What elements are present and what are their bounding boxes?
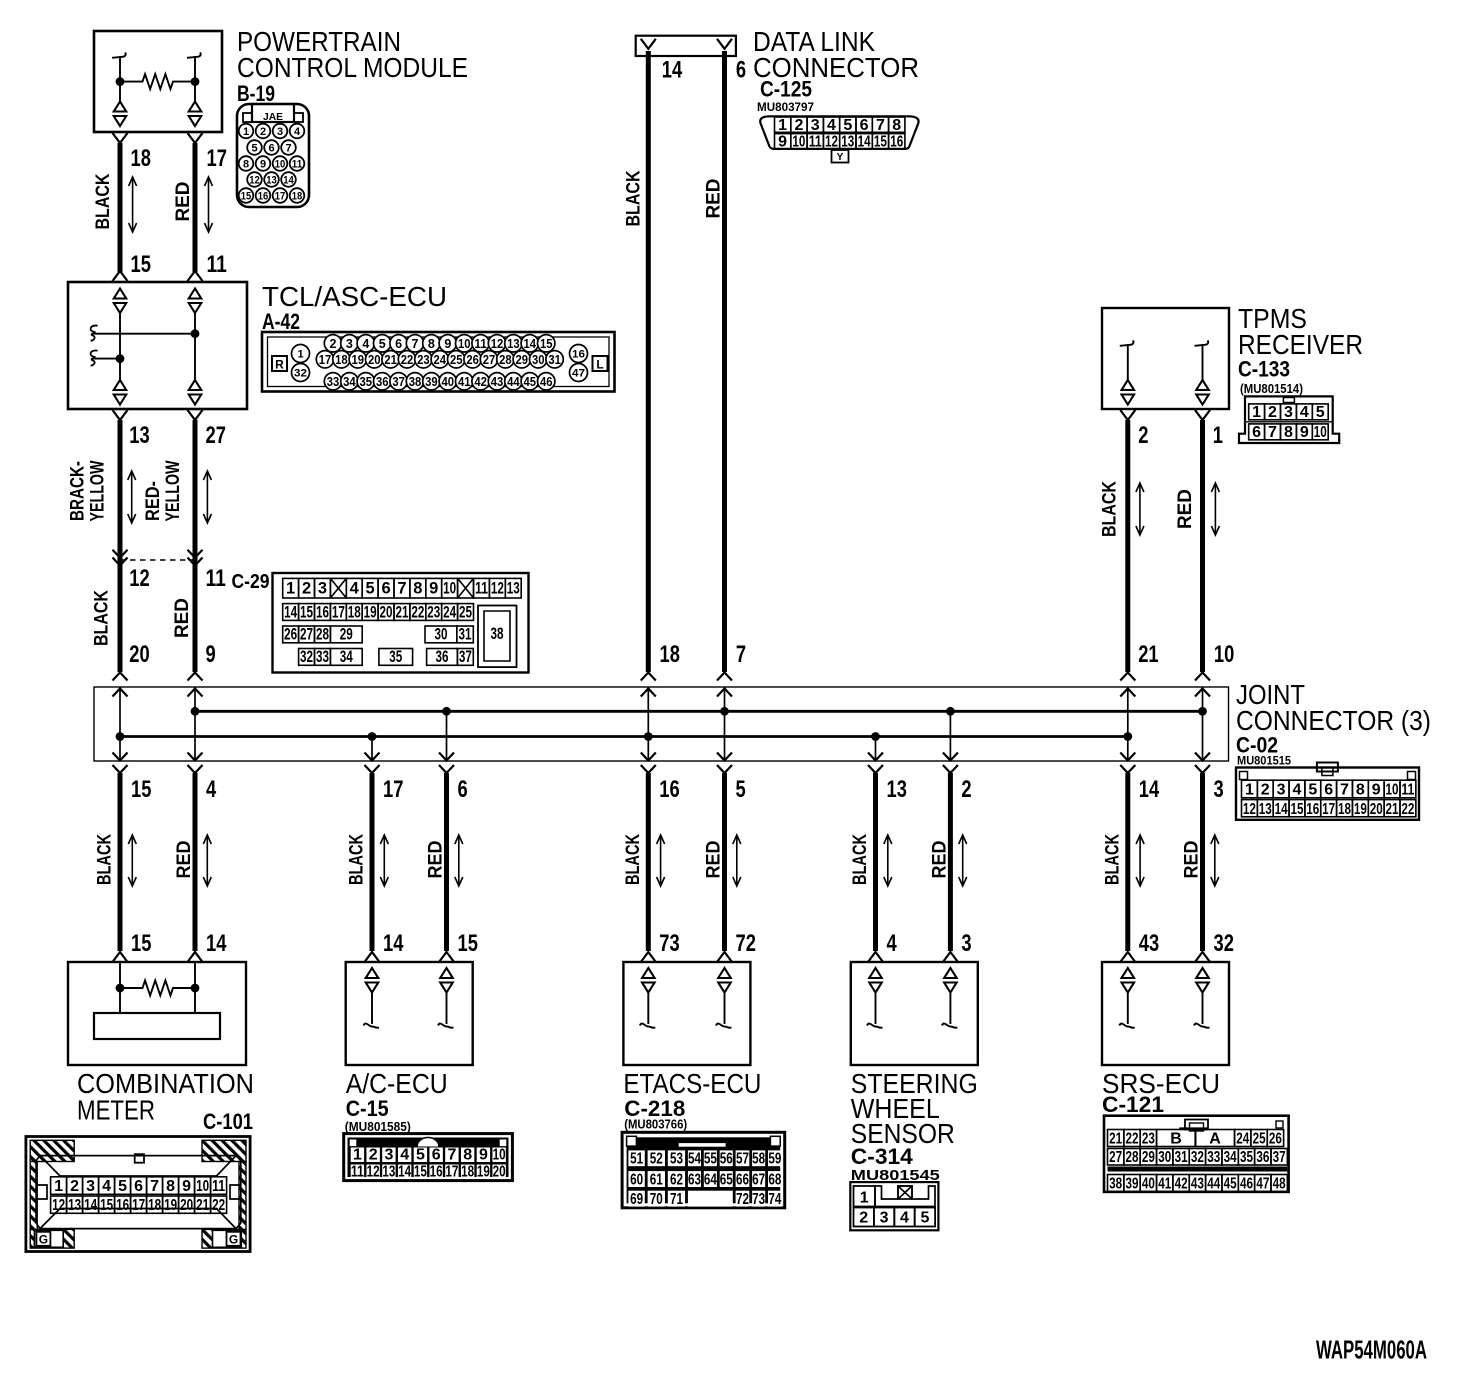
svg-text:22: 22 bbox=[401, 353, 414, 367]
svg-text:55: 55 bbox=[704, 1151, 717, 1168]
joint connector internal wire x=1202.5 bbox=[1202, 687, 1204, 761]
svg-text:R: R bbox=[275, 358, 284, 372]
wire RED joint to module pins 6->15 bbox=[444, 773, 449, 951]
svg-text:6: 6 bbox=[432, 1147, 441, 1164]
svg-text:17: 17 bbox=[132, 1197, 145, 1214]
svg-text:8: 8 bbox=[413, 580, 422, 598]
wire BLACK joint to module pins 16->73 bbox=[646, 773, 651, 951]
svg-text:58: 58 bbox=[752, 1151, 765, 1168]
svg-text:35: 35 bbox=[360, 375, 373, 389]
connector C-125 pin face (OBD trapezoid) bbox=[760, 116, 918, 163]
svg-text:8: 8 bbox=[1284, 424, 1293, 441]
svg-text:BLACK: BLACK bbox=[95, 834, 116, 885]
svg-text:15: 15 bbox=[131, 930, 151, 957]
svg-text:6: 6 bbox=[395, 337, 402, 351]
svg-text:15: 15 bbox=[414, 1164, 427, 1181]
svg-text:1: 1 bbox=[297, 349, 303, 361]
svg-text:71: 71 bbox=[670, 1191, 683, 1208]
node right bbox=[191, 984, 200, 993]
joint connector internal wire x=724.5 bbox=[724, 687, 726, 761]
svg-text:A/C-ECU: A/C-ECU bbox=[346, 1068, 448, 1099]
svg-text:5: 5 bbox=[366, 580, 375, 598]
svg-text:RED: RED bbox=[704, 841, 725, 879]
svg-text:19: 19 bbox=[477, 1164, 490, 1181]
terminal symbol TCL pin 11 bbox=[189, 289, 202, 299]
svg-text:27: 27 bbox=[1109, 1149, 1122, 1166]
twisted-pair arrow right bbox=[205, 177, 213, 232]
svg-text:1: 1 bbox=[286, 580, 295, 598]
svg-text:15: 15 bbox=[1290, 801, 1303, 818]
svg-text:4: 4 bbox=[206, 776, 217, 803]
connector C-121 pin face bbox=[1104, 1116, 1289, 1193]
terminal fork pin 14 bbox=[641, 39, 656, 49]
svg-text:23: 23 bbox=[427, 603, 440, 621]
wire BLACK TPMS 2 down bbox=[1120, 410, 1135, 420]
connector C-101 pin face bbox=[26, 1137, 250, 1252]
svg-text:24: 24 bbox=[434, 353, 447, 367]
svg-text:2: 2 bbox=[1268, 404, 1277, 421]
twisted-pair arrows bbox=[884, 835, 892, 886]
joint connector internal wire x=446.5 bbox=[446, 711, 448, 761]
module box: STEERING WHEEL SENSOR C-314 bbox=[851, 962, 978, 1065]
svg-text:45: 45 bbox=[1224, 1176, 1237, 1193]
joint connector internal wire x=120 bbox=[119, 687, 121, 761]
wire RED-YELLOW TCL 27 down bbox=[188, 410, 203, 420]
svg-text:12: 12 bbox=[1243, 801, 1256, 818]
svg-text:63: 63 bbox=[688, 1171, 701, 1188]
svg-text:5: 5 bbox=[1308, 782, 1317, 799]
svg-text:RED: RED bbox=[930, 841, 951, 879]
wire RED joint to module pins 3->32 bbox=[1200, 773, 1205, 951]
svg-text:B-19: B-19 bbox=[237, 81, 275, 106]
svg-text:8: 8 bbox=[428, 337, 435, 351]
svg-text:4: 4 bbox=[350, 580, 360, 598]
svg-text:RED: RED bbox=[426, 841, 447, 879]
svg-text:65: 65 bbox=[720, 1171, 733, 1188]
terminal fork pin 6 bbox=[717, 39, 732, 49]
svg-text:25: 25 bbox=[450, 353, 463, 367]
svg-text:9: 9 bbox=[479, 1147, 488, 1164]
svg-text:4: 4 bbox=[400, 1147, 409, 1164]
terminal symbol pin 18 bbox=[114, 102, 127, 112]
svg-text:6: 6 bbox=[458, 776, 468, 803]
svg-text:30: 30 bbox=[532, 353, 545, 367]
svg-text:2: 2 bbox=[1261, 782, 1270, 799]
internal terminal hook pin18 side bbox=[112, 53, 126, 82]
svg-text:2: 2 bbox=[1138, 422, 1148, 449]
module box: SRS-ECU C-121 bbox=[1102, 962, 1229, 1065]
svg-text:22: 22 bbox=[1401, 801, 1414, 818]
svg-text:7: 7 bbox=[1340, 782, 1349, 799]
svg-text:6: 6 bbox=[134, 1178, 143, 1195]
svg-text:BLACK: BLACK bbox=[92, 590, 113, 646]
internal bus line to node R bbox=[93, 333, 195, 335]
svg-text:36: 36 bbox=[376, 375, 389, 389]
terminal symbol pin 17 bbox=[189, 102, 202, 112]
svg-text:28: 28 bbox=[316, 626, 329, 644]
connector B-19 pin face (JAE 18-pin) bbox=[237, 104, 309, 207]
svg-text:19: 19 bbox=[164, 1197, 177, 1214]
svg-text:3: 3 bbox=[318, 580, 327, 598]
svg-text:5: 5 bbox=[920, 1210, 929, 1227]
svg-text:4: 4 bbox=[887, 930, 898, 957]
svg-text:1: 1 bbox=[860, 1190, 869, 1207]
svg-text:10: 10 bbox=[792, 133, 805, 150]
svg-text:38: 38 bbox=[491, 625, 504, 643]
joint connector internal wire x=950.4 bbox=[949, 711, 951, 761]
svg-text:13: 13 bbox=[382, 1164, 395, 1181]
svg-text:MU803797: MU803797 bbox=[757, 102, 814, 114]
svg-text:27: 27 bbox=[206, 422, 226, 449]
svg-text:BLACK: BLACK bbox=[1102, 834, 1123, 885]
svg-text:36: 36 bbox=[1256, 1149, 1269, 1166]
svg-text:4: 4 bbox=[294, 126, 301, 138]
svg-text:10: 10 bbox=[443, 580, 456, 598]
squiggle continuation left upper bbox=[91, 326, 98, 341]
svg-text:25: 25 bbox=[1253, 1131, 1266, 1148]
svg-text:20: 20 bbox=[493, 1164, 506, 1181]
svg-text:CONTROL MODULE: CONTROL MODULE bbox=[237, 52, 468, 83]
twisted-pair arrow left bbox=[1136, 483, 1144, 535]
inline connector C-29 dashed line bbox=[120, 559, 195, 561]
svg-text:24: 24 bbox=[1236, 1131, 1249, 1148]
svg-text:15: 15 bbox=[458, 930, 478, 957]
internal wires from pins bbox=[119, 962, 121, 988]
svg-text:12: 12 bbox=[825, 133, 838, 150]
svg-text:5: 5 bbox=[843, 117, 852, 134]
inline connector C-29 junction chevrons right bbox=[188, 550, 203, 558]
svg-text:44: 44 bbox=[1207, 1176, 1220, 1193]
svg-text:1: 1 bbox=[1213, 422, 1223, 449]
svg-text:YELLOW: YELLOW bbox=[163, 460, 184, 521]
svg-text:15: 15 bbox=[131, 776, 151, 803]
svg-text:WAP54M060A: WAP54M060A bbox=[1316, 1335, 1427, 1365]
svg-text:37: 37 bbox=[1273, 1149, 1286, 1166]
svg-text:RED: RED bbox=[172, 598, 193, 638]
svg-text:57: 57 bbox=[736, 1151, 749, 1168]
terminal symbol bbox=[1196, 968, 1209, 978]
svg-text:3: 3 bbox=[811, 117, 820, 134]
svg-text:73: 73 bbox=[659, 930, 679, 957]
terminal symbol TCL pin 13 bbox=[114, 380, 127, 390]
connector C-133 pin face bbox=[1239, 396, 1339, 443]
svg-text:16: 16 bbox=[1306, 801, 1319, 818]
node on right wire bbox=[191, 329, 200, 338]
connector C-218 pin face bbox=[622, 1132, 785, 1208]
node left bbox=[116, 984, 125, 993]
svg-text:11: 11 bbox=[292, 159, 303, 171]
internal wire right bbox=[194, 314, 196, 381]
terminal lead with hook bbox=[1119, 993, 1135, 1028]
terminal symbol TCL pin 15 bbox=[114, 289, 127, 299]
svg-text:3: 3 bbox=[384, 1147, 393, 1164]
svg-text:1: 1 bbox=[243, 126, 249, 138]
svg-text:42: 42 bbox=[1175, 1176, 1188, 1193]
svg-text:2: 2 bbox=[961, 776, 971, 803]
terminal symbol bbox=[366, 968, 379, 978]
svg-text:16: 16 bbox=[430, 1164, 443, 1181]
svg-text:19: 19 bbox=[1354, 801, 1367, 818]
svg-text:ETACS-ECU: ETACS-ECU bbox=[623, 1068, 761, 1099]
node junction right bbox=[191, 77, 200, 86]
svg-text:53: 53 bbox=[670, 1151, 683, 1168]
svg-text:10: 10 bbox=[275, 159, 286, 171]
svg-text:28: 28 bbox=[499, 353, 512, 367]
svg-text:4: 4 bbox=[1292, 782, 1301, 799]
svg-text:21: 21 bbox=[1109, 1131, 1122, 1148]
svg-text:1: 1 bbox=[1245, 782, 1254, 799]
svg-text:Y: Y bbox=[837, 152, 844, 163]
svg-text:17: 17 bbox=[332, 603, 345, 621]
svg-text:40: 40 bbox=[1142, 1176, 1155, 1193]
svg-text:6: 6 bbox=[1252, 424, 1261, 441]
svg-text:21: 21 bbox=[1138, 641, 1158, 668]
svg-text:2: 2 bbox=[260, 126, 266, 138]
svg-text:21: 21 bbox=[1386, 801, 1399, 818]
svg-text:11: 11 bbox=[475, 580, 488, 598]
connector C-29 pin face bbox=[273, 573, 529, 673]
wire RED joint to module pins 5->72 bbox=[722, 773, 727, 951]
terminal symbol TPMS pin 2 bbox=[1122, 380, 1135, 390]
svg-text:72: 72 bbox=[736, 1191, 749, 1208]
svg-text:42: 42 bbox=[474, 375, 487, 389]
svg-text:5: 5 bbox=[736, 776, 746, 803]
svg-text:48: 48 bbox=[1273, 1176, 1286, 1193]
svg-text:3: 3 bbox=[86, 1178, 95, 1195]
svg-text:18: 18 bbox=[335, 353, 348, 367]
svg-text:16: 16 bbox=[572, 349, 585, 361]
twisted-pair arrows bbox=[1136, 835, 1144, 886]
svg-text:12: 12 bbox=[367, 1164, 380, 1181]
svg-text:43: 43 bbox=[1139, 930, 1159, 957]
wire RED data link 6 down to joint bbox=[722, 51, 727, 672]
svg-text:15: 15 bbox=[540, 337, 553, 351]
svg-text:7: 7 bbox=[397, 580, 406, 598]
terminal lead with hook bbox=[867, 993, 883, 1028]
svg-text:CONNECTOR (3): CONNECTOR (3) bbox=[1236, 705, 1431, 736]
module box: TCL/ASC-ECU A-42 bbox=[68, 282, 247, 409]
svg-text:2: 2 bbox=[330, 337, 337, 351]
terminal symbol bbox=[1122, 968, 1135, 978]
svg-text:9: 9 bbox=[778, 133, 787, 150]
svg-text:5: 5 bbox=[251, 143, 257, 155]
squiggle continuation left lower bbox=[91, 350, 98, 365]
svg-text:35: 35 bbox=[1240, 1149, 1253, 1166]
svg-text:11: 11 bbox=[207, 251, 227, 278]
svg-text:13: 13 bbox=[507, 337, 520, 351]
bus junction dots bbox=[116, 732, 125, 741]
node junction left bbox=[116, 77, 125, 86]
svg-text:14: 14 bbox=[84, 1197, 97, 1214]
svg-text:7: 7 bbox=[285, 143, 291, 155]
terminal lead with hook bbox=[438, 993, 454, 1028]
wire BLACK-YELLOW TCL 13 down bbox=[113, 410, 128, 420]
internal branch line lower bbox=[93, 358, 120, 360]
wire RED joint to module pins 4->14 bbox=[193, 773, 198, 951]
svg-text:11: 11 bbox=[1401, 782, 1414, 799]
wire RED TPMS 1 down bbox=[1195, 410, 1210, 420]
svg-text:14: 14 bbox=[206, 930, 227, 957]
internal hook right bbox=[1195, 341, 1209, 381]
svg-text:(MU801585): (MU801585) bbox=[345, 1120, 411, 1134]
svg-text:13: 13 bbox=[887, 776, 907, 803]
svg-text:73: 73 bbox=[752, 1191, 765, 1208]
bus line lower (CAN low joint) bbox=[120, 735, 1128, 738]
joint connector internal wire x=195 bbox=[194, 687, 196, 761]
svg-text:35: 35 bbox=[389, 648, 402, 666]
terminal lead with hook bbox=[364, 993, 380, 1028]
svg-text:17: 17 bbox=[445, 1164, 458, 1181]
svg-text:47: 47 bbox=[572, 368, 585, 380]
svg-text:20: 20 bbox=[368, 353, 381, 367]
svg-text:18: 18 bbox=[660, 641, 680, 668]
module box: A/C-ECU C-15 bbox=[346, 962, 473, 1065]
svg-text:16: 16 bbox=[659, 776, 679, 803]
svg-text:11: 11 bbox=[206, 565, 226, 592]
svg-text:27: 27 bbox=[483, 353, 496, 367]
svg-text:66: 66 bbox=[736, 1171, 749, 1188]
svg-text:3: 3 bbox=[1277, 782, 1286, 799]
svg-text:G: G bbox=[229, 1232, 238, 1246]
joint connector internal wire x=875.5 bbox=[875, 737, 877, 762]
wire BLACK PCM 18 to TCL 15 bbox=[113, 133, 128, 143]
svg-text:11: 11 bbox=[809, 133, 822, 150]
svg-text:7: 7 bbox=[412, 337, 419, 351]
svg-text:(MU801514): (MU801514) bbox=[1240, 382, 1303, 396]
module box: ETACS-ECU C-218 bbox=[623, 962, 750, 1065]
twisted-pair arrow left bbox=[128, 471, 136, 523]
gauge block bbox=[94, 1013, 220, 1039]
svg-text:7: 7 bbox=[736, 641, 746, 668]
svg-text:32: 32 bbox=[300, 648, 313, 666]
connector C-02 pin face bbox=[1236, 763, 1419, 820]
svg-text:20: 20 bbox=[180, 1197, 193, 1214]
svg-text:14: 14 bbox=[398, 1164, 411, 1181]
svg-text:14: 14 bbox=[662, 57, 683, 84]
svg-text:14: 14 bbox=[283, 175, 294, 187]
svg-text:72: 72 bbox=[736, 930, 756, 957]
terminal symbol bbox=[869, 968, 882, 978]
svg-text:6: 6 bbox=[268, 143, 274, 155]
svg-text:BRACK-: BRACK- bbox=[67, 461, 88, 521]
svg-text:4: 4 bbox=[827, 117, 836, 134]
svg-text:C-29: C-29 bbox=[232, 571, 270, 593]
twisted-pair arrow right bbox=[203, 471, 211, 523]
svg-text:19: 19 bbox=[364, 603, 377, 621]
svg-text:2: 2 bbox=[302, 580, 311, 598]
svg-text:15: 15 bbox=[241, 191, 252, 203]
svg-text:18: 18 bbox=[348, 603, 361, 621]
svg-text:36: 36 bbox=[436, 648, 449, 666]
svg-text:17: 17 bbox=[207, 145, 227, 172]
svg-text:2: 2 bbox=[369, 1147, 378, 1164]
svg-text:24: 24 bbox=[443, 603, 457, 621]
svg-text:27: 27 bbox=[300, 626, 313, 644]
svg-text:17: 17 bbox=[383, 776, 403, 803]
svg-text:14: 14 bbox=[858, 133, 871, 150]
svg-text:5: 5 bbox=[379, 337, 386, 351]
svg-text:21: 21 bbox=[384, 353, 397, 367]
svg-text:MU801515: MU801515 bbox=[1237, 756, 1292, 768]
svg-text:26: 26 bbox=[1269, 1131, 1282, 1148]
svg-text:39: 39 bbox=[1126, 1176, 1139, 1193]
svg-text:2: 2 bbox=[859, 1210, 868, 1227]
svg-text:14: 14 bbox=[284, 603, 298, 621]
svg-text:12: 12 bbox=[249, 175, 260, 187]
resistor (CAN termination inside PCM) bbox=[120, 74, 195, 89]
svg-text:4: 4 bbox=[1300, 404, 1309, 421]
svg-text:3: 3 bbox=[1214, 776, 1224, 803]
svg-text:7: 7 bbox=[150, 1178, 159, 1195]
internal leads to gauge block bbox=[119, 988, 121, 1013]
svg-text:32: 32 bbox=[1191, 1149, 1204, 1166]
svg-text:RECEIVER: RECEIVER bbox=[1238, 329, 1363, 360]
svg-text:15: 15 bbox=[874, 133, 887, 150]
terminal symbol bbox=[718, 968, 731, 978]
wire BLACK joint to module pins 15->15 bbox=[118, 773, 123, 951]
svg-text:23: 23 bbox=[1142, 1131, 1155, 1148]
svg-text:68: 68 bbox=[768, 1171, 781, 1188]
svg-text:31: 31 bbox=[1175, 1149, 1188, 1166]
svg-text:13: 13 bbox=[266, 175, 277, 187]
svg-text:10: 10 bbox=[1314, 424, 1327, 441]
svg-text:33: 33 bbox=[316, 648, 329, 666]
svg-text:64: 64 bbox=[704, 1171, 717, 1188]
svg-text:46: 46 bbox=[540, 375, 553, 389]
svg-text:39: 39 bbox=[425, 375, 438, 389]
svg-text:38: 38 bbox=[409, 375, 422, 389]
svg-text:33: 33 bbox=[327, 375, 340, 389]
svg-text:41: 41 bbox=[458, 375, 471, 389]
joint connector internal wire x=372 bbox=[371, 737, 373, 762]
svg-text:38: 38 bbox=[1109, 1176, 1122, 1193]
svg-text:16: 16 bbox=[316, 603, 329, 621]
module box: POWERTRAIN CONTROL MODULE B-19 bbox=[94, 31, 222, 132]
svg-text:26: 26 bbox=[466, 353, 479, 367]
svg-text:15: 15 bbox=[100, 1197, 113, 1214]
svg-text:C-101: C-101 bbox=[203, 1109, 253, 1134]
svg-text:BLACK: BLACK bbox=[850, 834, 871, 885]
svg-text:3: 3 bbox=[880, 1210, 889, 1227]
terminal lead with hook bbox=[640, 993, 656, 1028]
svg-text:9: 9 bbox=[429, 580, 438, 598]
svg-text:21: 21 bbox=[395, 603, 408, 621]
ground pin G left bbox=[34, 1230, 63, 1247]
svg-text:18: 18 bbox=[292, 191, 303, 203]
twisted-pair arrow right bbox=[1211, 483, 1219, 535]
svg-text:22: 22 bbox=[212, 1197, 225, 1214]
node on left wire bbox=[116, 354, 125, 363]
svg-text:5: 5 bbox=[1316, 404, 1325, 421]
svg-text:(MU803766): (MU803766) bbox=[624, 1118, 687, 1132]
svg-text:B: B bbox=[1170, 1131, 1182, 1148]
twisted-pair arrows bbox=[657, 835, 665, 886]
svg-text:1: 1 bbox=[54, 1178, 63, 1195]
svg-text:12: 12 bbox=[491, 337, 504, 351]
twisted-pair arrows bbox=[380, 835, 388, 886]
svg-text:1: 1 bbox=[778, 117, 787, 134]
bus line upper (CAN high joint) bbox=[195, 710, 1203, 713]
svg-text:17: 17 bbox=[1322, 801, 1335, 818]
resistor (meter termination) bbox=[120, 981, 195, 996]
svg-text:9: 9 bbox=[1372, 782, 1381, 799]
wire RED joint to module pins 2->3 bbox=[948, 773, 953, 951]
svg-text:6: 6 bbox=[1324, 782, 1333, 799]
svg-text:31: 31 bbox=[548, 353, 561, 367]
joint connector internal wire x=1127.8 bbox=[1127, 687, 1129, 761]
svg-text:44: 44 bbox=[507, 375, 520, 389]
svg-text:RED: RED bbox=[174, 841, 195, 879]
